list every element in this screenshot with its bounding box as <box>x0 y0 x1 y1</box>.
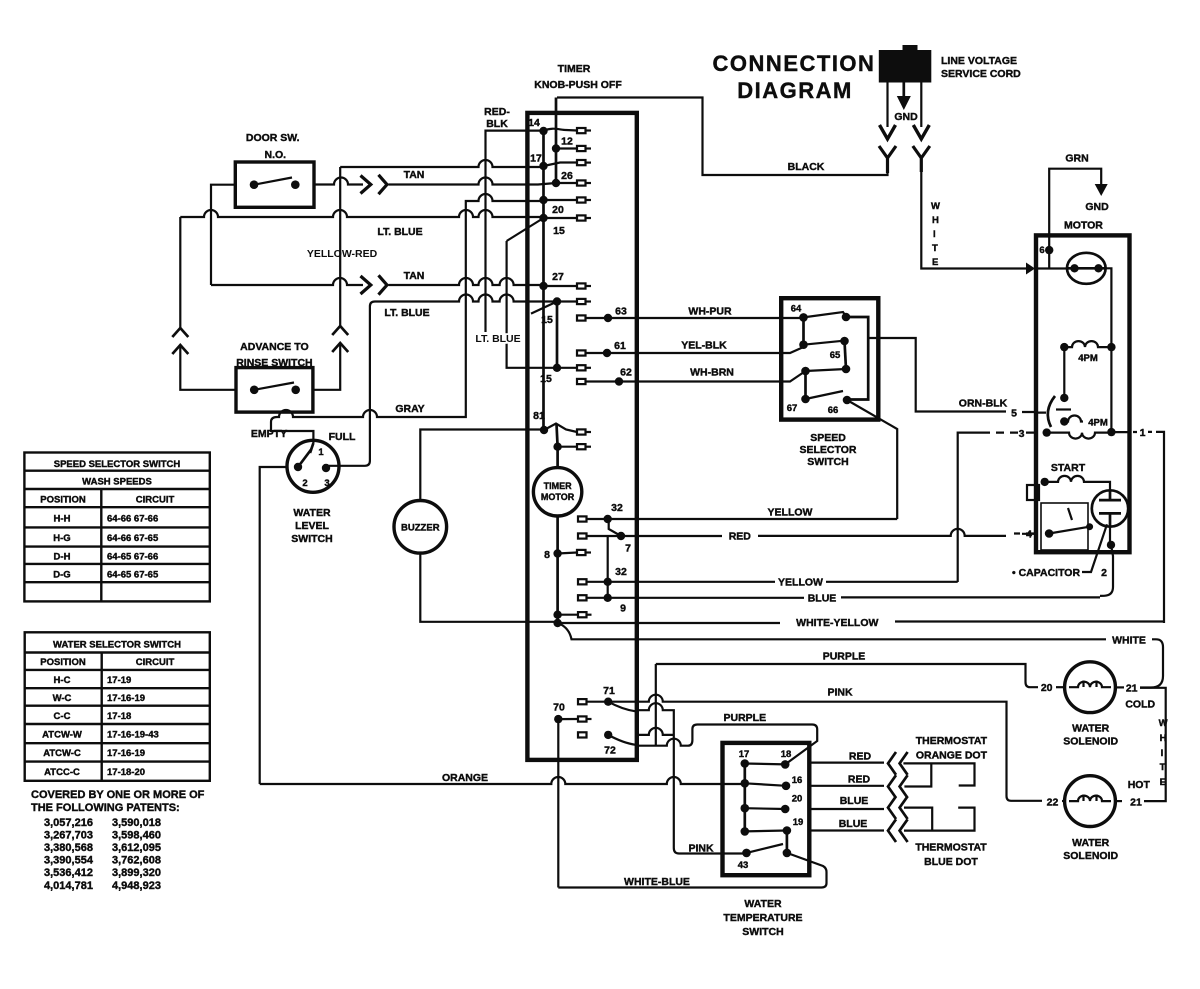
svg-text:BUZZER: BUZZER <box>401 523 440 534</box>
svg-text:W: W <box>931 201 940 212</box>
gnd arrow <box>897 96 911 110</box>
chevrons BLUE t1 <box>888 796 908 819</box>
svg-text:LT. BLUE: LT. BLUE <box>377 226 422 238</box>
motor governor rect <box>1041 503 1088 550</box>
blade 67 <box>806 391 844 399</box>
svg-text:2: 2 <box>302 478 307 489</box>
blade 72 <box>608 735 635 745</box>
wire PINK to hot solenoid <box>587 695 1043 801</box>
svg-text:PINK: PINK <box>827 687 853 699</box>
wire speed sel out to motor pin5 <box>868 338 1036 412</box>
svg-text:BLUE: BLUE <box>840 795 869 807</box>
node 32 lower <box>604 578 612 586</box>
svg-text:4,948,923: 4,948,923 <box>112 880 161 892</box>
speed sel node 64b <box>842 313 851 322</box>
svg-text:COVERED BY ONE OR MORE OF: COVERED BY ONE OR MORE OF <box>31 789 205 801</box>
svg-text:32: 32 <box>615 566 627 578</box>
svg-text:BLK: BLK <box>486 118 508 130</box>
svg-text:THERMOSTAT: THERMOSTAT <box>916 735 988 747</box>
chevron V3 b <box>332 343 348 352</box>
wire WHITE link between solenoids <box>1140 688 1166 801</box>
wire blade72 out to PURPLE lower <box>637 725 817 765</box>
wire plug right pin <box>920 83 922 128</box>
wt blade to 20 <box>745 807 785 810</box>
timer contact 15 lower <box>553 364 561 372</box>
timer internal bus mid 15 <box>556 302 559 368</box>
svg-text:I: I <box>933 229 936 240</box>
node 7 <box>617 532 625 540</box>
svg-text:YEL-BLK: YEL-BLK <box>681 340 727 352</box>
timer contact 614 <box>553 611 561 619</box>
wire buzzer top to contact 81 <box>420 430 543 501</box>
wire row 167 to contact 17 <box>340 160 543 167</box>
wire TAN lower cont <box>389 278 544 285</box>
svg-text:SOLENOID: SOLENOID <box>1063 850 1118 862</box>
terminal 15 lower <box>577 365 586 370</box>
svg-text:H: H <box>1160 733 1167 744</box>
svg-text:5: 5 <box>1011 408 1017 420</box>
svg-text:3,536,412: 3,536,412 <box>44 867 93 879</box>
speed sel inner bus <box>846 317 868 400</box>
svg-text:27: 27 <box>552 271 564 283</box>
svg-text:3,057,216: 3,057,216 <box>44 817 93 829</box>
terminal 32 lower <box>578 579 587 584</box>
wire water level pin2 left riser <box>260 467 287 784</box>
wire RED t2 <box>809 763 931 786</box>
svg-text:WASH SPEEDS: WASH SPEEDS <box>82 477 152 488</box>
timer contact 26 <box>552 179 560 187</box>
svg-text:20: 20 <box>792 794 803 805</box>
wire BLUE <box>587 596 1101 599</box>
terminal 32 upper <box>578 516 587 521</box>
svg-text:17: 17 <box>739 749 750 760</box>
wire WHITE from timer <box>558 623 1163 688</box>
table water selector switch <box>25 632 210 781</box>
svg-text:17-16-19: 17-16-19 <box>107 693 145 704</box>
svg-text:64-65 67-66: 64-65 67-66 <box>107 552 158 563</box>
svg-text:ORANGE DOT: ORANGE DOT <box>916 750 988 762</box>
start switch circle <box>1092 490 1128 526</box>
svg-text:THE FOLLOWING PATENTS:: THE FOLLOWING PATENTS: <box>31 802 180 814</box>
svg-text:2: 2 <box>1101 567 1107 579</box>
water level switch circle <box>287 440 339 492</box>
svg-text:71: 71 <box>603 685 615 697</box>
svg-text:H-C: H-C <box>54 675 71 686</box>
svg-text:SPEED SELECTOR SWITCH: SPEED SELECTOR SWITCH <box>54 459 181 470</box>
svg-text:KNOB-PUSH OFF: KNOB-PUSH OFF <box>534 79 622 91</box>
svg-text:64-66 67-65: 64-66 67-65 <box>107 533 159 544</box>
terminal 9 <box>578 595 587 600</box>
svg-text:MOTOR: MOTOR <box>1064 220 1103 232</box>
svg-text:62: 62 <box>620 367 632 379</box>
svg-text:3: 3 <box>1019 428 1025 440</box>
terminal 63 <box>577 315 586 320</box>
svg-text:RED: RED <box>729 531 752 543</box>
motor centrifugal contact lower <box>1060 417 1068 425</box>
wire YELLOW lower <box>587 581 958 583</box>
svg-text:SWITCH: SWITCH <box>807 456 848 468</box>
water level wiper <box>298 449 312 467</box>
svg-text:SELECTOR: SELECTOR <box>800 444 857 456</box>
svg-text:WHITE-BLUE: WHITE-BLUE <box>624 876 690 888</box>
timer contact 12 <box>552 144 560 152</box>
svg-text:DOOR SW.: DOOR SW. <box>246 132 300 144</box>
svg-text:I: I <box>1161 748 1164 759</box>
wire WHITE-YELLOW <box>558 619 1164 623</box>
svg-text:12: 12 <box>561 136 573 148</box>
chevron V1 b <box>172 345 188 354</box>
svg-text:C-C: C-C <box>54 711 71 722</box>
svg-text:GND: GND <box>894 111 918 123</box>
svg-text:WATER: WATER <box>744 898 782 910</box>
speed sel contact 65 <box>842 365 851 374</box>
node 71 <box>604 698 612 706</box>
arrow right pin <box>913 125 929 139</box>
timer contact 15 upper <box>539 214 547 222</box>
svg-text:20: 20 <box>552 204 564 216</box>
svg-text:17-18: 17-18 <box>107 711 131 722</box>
wt node mid <box>741 804 750 813</box>
svg-text:17-19: 17-19 <box>107 675 131 686</box>
svg-text:8: 8 <box>544 549 550 561</box>
svg-text:1: 1 <box>1140 427 1146 439</box>
door switch contacts <box>250 180 259 189</box>
svg-text:GND: GND <box>1085 201 1109 213</box>
wt link 19 down <box>786 831 789 853</box>
rinse switch blade <box>254 383 294 390</box>
svg-text:TEMPERATURE: TEMPERATURE <box>723 912 802 924</box>
timer internal bus to motor <box>557 424 558 468</box>
rinse switch contacts <box>250 386 259 395</box>
internal link 7-9 <box>607 536 609 598</box>
wt contact 19 <box>783 826 792 835</box>
svg-text:E: E <box>1160 777 1166 788</box>
V1 wire left <box>180 217 236 390</box>
wire LT.BLUE mid to water level pin3 <box>326 295 553 466</box>
svg-text:70: 70 <box>553 702 565 714</box>
svg-text:POSITION: POSITION <box>40 495 86 506</box>
wt bus <box>743 764 746 832</box>
svg-text:15: 15 <box>540 373 552 385</box>
motor 4PM upper winding <box>1060 343 1068 351</box>
terminal 27 <box>577 283 586 288</box>
wt contact 20 <box>781 805 790 814</box>
svg-text:LINE VOLTAGE: LINE VOLTAGE <box>941 55 1017 67</box>
svg-text:4,014,781: 4,014,781 <box>44 880 93 892</box>
svg-text:COLD: COLD <box>1125 699 1155 711</box>
rinse switch box <box>236 368 313 413</box>
speed sel contact 64 <box>799 313 808 322</box>
terminal 14 <box>577 128 586 133</box>
svg-text:3,612,095: 3,612,095 <box>112 842 161 854</box>
wire plug gnd pin <box>902 83 905 98</box>
speed sel bus 67 <box>804 371 807 399</box>
svg-text:BLUE DOT: BLUE DOT <box>924 856 978 868</box>
svg-text:LT. BLUE: LT. BLUE <box>475 333 520 345</box>
motor contact 4 <box>1045 529 1054 538</box>
svg-text:D-H: D-H <box>54 552 71 563</box>
terminal 20 <box>577 197 586 202</box>
door switch blade <box>254 178 292 185</box>
wt node low <box>741 827 750 836</box>
speed sel contact 67 <box>801 395 810 404</box>
svg-text:PURPLE: PURPLE <box>823 651 866 663</box>
svg-text:TAN: TAN <box>404 169 425 181</box>
svg-text:63: 63 <box>615 306 627 318</box>
svg-text:THERMOSTAT: THERMOSTAT <box>915 842 987 854</box>
svg-text:72: 72 <box>604 745 616 757</box>
wire GRAY row 201 riser <box>271 194 544 443</box>
svg-text:21: 21 <box>1126 683 1138 695</box>
wire TAN lower <box>211 278 363 285</box>
timer contact 27 <box>539 282 547 290</box>
svg-text:EMPTY: EMPTY <box>251 428 287 440</box>
terminal 446 <box>577 444 586 449</box>
wire RED-BLK riser <box>486 131 544 332</box>
svg-text:SWITCH: SWITCH <box>291 533 332 545</box>
svg-text:WHITE: WHITE <box>1112 634 1146 646</box>
svg-text:4PM: 4PM <box>1088 418 1108 429</box>
svg-text:17: 17 <box>530 153 542 165</box>
svg-text:WH-PUR: WH-PUR <box>688 306 732 318</box>
wire WH-BRN <box>586 371 806 382</box>
terminal 15 mid <box>577 299 586 304</box>
connector Y right <box>913 146 930 172</box>
wt blade 43 <box>747 844 784 853</box>
wire WHITE-BLUE <box>558 853 826 888</box>
wire pin 1 to white-yellow riser <box>1111 432 1164 619</box>
svg-text:SERVICE CORD: SERVICE CORD <box>941 68 1021 80</box>
motor grn link <box>1048 250 1050 268</box>
svg-text:21: 21 <box>1130 796 1142 808</box>
svg-text:9: 9 <box>620 603 626 615</box>
svg-text:WATER: WATER <box>1072 837 1110 849</box>
svg-text:64-65 67-65: 64-65 67-65 <box>107 570 159 581</box>
water level contact 3 <box>322 464 330 472</box>
motor 4PM lower winding <box>1064 416 1083 422</box>
timer internal bus upper (black feed) <box>555 98 558 184</box>
timer motor circle <box>533 468 581 516</box>
wire buzzer bottom <box>420 553 557 623</box>
wire BLUE t2 <box>809 808 974 831</box>
wt contact bottom right <box>783 849 792 858</box>
blade 32-7 <box>609 519 621 536</box>
svg-text:22: 22 <box>1047 797 1059 809</box>
speed sel bus 64-65 <box>802 317 805 344</box>
water solenoid COLD <box>1065 662 1116 713</box>
speed selector switch box <box>781 298 878 419</box>
terminal 7 <box>578 533 587 538</box>
motor node grn <box>1045 246 1053 254</box>
node 9 <box>604 594 612 602</box>
wire WHITE vertical to motor <box>921 172 1026 269</box>
svg-text:20: 20 <box>1041 682 1053 694</box>
motor link 4PM to 5 <box>1063 347 1065 398</box>
connector Y left <box>879 146 896 173</box>
terminal 71 <box>578 699 587 704</box>
svg-text:ATCW-C: ATCW-C <box>43 748 81 759</box>
water temperature switch box <box>723 743 810 875</box>
svg-text:WATER: WATER <box>1072 723 1110 735</box>
V3 wire mid <box>313 167 340 390</box>
svg-text:CONNECTION: CONNECTION <box>713 51 876 76</box>
door switch box <box>235 162 314 207</box>
svg-text:18: 18 <box>781 749 792 760</box>
chevrons BLUE t2 <box>888 819 908 842</box>
svg-text:GRN: GRN <box>1065 153 1088 165</box>
svg-text:17-16-19-43: 17-16-19-43 <box>107 730 159 741</box>
water level contact 2 <box>294 463 302 471</box>
line voltage service cord plug <box>879 50 932 83</box>
timer internal bus left <box>542 131 545 430</box>
svg-text:3,380,568: 3,380,568 <box>44 842 93 854</box>
wire plug left pin <box>886 83 888 128</box>
wire purple drop V2b <box>655 664 657 746</box>
wire riser 15 lower <box>507 241 553 368</box>
svg-text:TIMER: TIMER <box>544 481 572 491</box>
wire hot 21 <box>1115 800 1122 802</box>
blade 15 upper diagonal <box>507 218 544 241</box>
svg-text:14: 14 <box>528 117 540 129</box>
svg-text:LEVEL: LEVEL <box>295 520 329 532</box>
svg-text:LT. BLUE: LT. BLUE <box>384 307 429 319</box>
timer contact 81 <box>540 426 548 434</box>
terminal 12 <box>577 146 586 151</box>
svg-text:SOLENOID: SOLENOID <box>1063 736 1118 748</box>
wire BLUE t1 <box>809 808 932 831</box>
chevrons RED t2 <box>888 775 908 798</box>
svg-text:PINK: PINK <box>688 843 714 855</box>
svg-text:ORN-BLK: ORN-BLK <box>959 398 1008 410</box>
node white-yellow junction <box>553 619 561 627</box>
svg-text:66: 66 <box>828 405 839 416</box>
terminal 8 <box>577 550 586 555</box>
timer internal bus lower <box>556 516 559 623</box>
svg-text:T: T <box>1160 762 1166 773</box>
svg-text:START: START <box>1051 462 1086 474</box>
motor box <box>1036 235 1130 552</box>
svg-text:3,762,608: 3,762,608 <box>112 855 161 867</box>
svg-text:WH-BRN: WH-BRN <box>690 367 734 379</box>
motor centrifugal contact upper <box>1060 394 1068 402</box>
svg-text:H: H <box>932 215 939 226</box>
timer contact 14 <box>539 127 547 135</box>
wire YELLOW upper <box>587 518 898 520</box>
svg-text:3,598,460: 3,598,460 <box>112 830 161 842</box>
svg-text:6: 6 <box>1039 245 1044 256</box>
svg-text:17-18-20: 17-18-20 <box>107 767 145 778</box>
connector chevron TAN upper <box>379 175 388 194</box>
wire TAN upper <box>314 178 363 185</box>
svg-text:3,267,703: 3,267,703 <box>44 830 93 842</box>
svg-text:26: 26 <box>561 170 573 182</box>
connector chevron TAN lower <box>379 275 388 294</box>
speed sel contact 66 <box>843 396 852 405</box>
wire pin 3 <box>958 413 1046 582</box>
speed sel node 65 top <box>840 337 849 346</box>
buzzer circle <box>394 501 447 554</box>
wt blade to 19 <box>745 829 787 832</box>
wire LT.BLUE upper <box>180 210 543 217</box>
chevrons RED t1 <box>888 752 908 775</box>
table speed selector switch <box>24 453 209 602</box>
svg-text:POSITION: POSITION <box>40 657 86 668</box>
terminal 62 <box>577 379 586 384</box>
svg-text:RED-: RED- <box>484 106 510 118</box>
node 62 <box>615 377 623 385</box>
svg-text:19: 19 <box>793 817 804 828</box>
svg-text:W-C: W-C <box>53 693 72 704</box>
svg-text:YELLOW-RED: YELLOW-RED <box>307 248 378 260</box>
arrow into motor <box>1026 263 1035 275</box>
svg-text:HOT: HOT <box>1128 779 1151 791</box>
svg-text:1: 1 <box>318 447 324 458</box>
wire ORANGE <box>260 777 745 784</box>
svg-text:BLACK: BLACK <box>788 161 825 173</box>
water solenoid HOT <box>1065 776 1116 827</box>
svg-text:17-16-19: 17-16-19 <box>107 748 145 759</box>
chevron V1 a <box>172 328 188 337</box>
speed sel contact 67a <box>801 367 810 376</box>
svg-text:FULL: FULL <box>329 431 356 443</box>
svg-text:WATER: WATER <box>293 507 331 519</box>
wire 70 riser <box>557 719 559 887</box>
wire pin 4 <box>1014 532 1036 534</box>
svg-text:43: 43 <box>738 860 749 871</box>
svg-text:W: W <box>1159 718 1168 729</box>
wire PURPLE upper <box>656 664 1038 687</box>
svg-text:MOTOR: MOTOR <box>541 492 575 502</box>
wt blade 17-18 <box>745 762 785 765</box>
terminal 81 <box>577 429 586 434</box>
svg-text:CIRCUIT: CIRCUIT <box>136 495 175 506</box>
svg-text:WATER SELECTOR SWITCH: WATER SELECTOR SWITCH <box>53 640 181 651</box>
arrow TAN upper <box>361 176 371 194</box>
timer contact 20 <box>539 196 547 204</box>
svg-text:7: 7 <box>625 543 631 555</box>
svg-text:YELLOW: YELLOW <box>778 577 823 589</box>
arrow left pin <box>880 125 896 139</box>
svg-text:67: 67 <box>787 403 798 414</box>
svg-text:PURPLE: PURPLE <box>724 712 767 724</box>
blade 65a <box>804 341 845 345</box>
svg-text:ORANGE: ORANGE <box>442 772 488 784</box>
svg-text:3,899,320: 3,899,320 <box>112 867 161 879</box>
timer contact 15 mid <box>553 297 561 305</box>
svg-text:BLUE: BLUE <box>808 593 837 605</box>
svg-text:ADVANCE TO: ADVANCE TO <box>240 341 308 353</box>
wt node orange <box>741 779 750 788</box>
timer contact 17 <box>539 162 547 170</box>
centrifugal actuator arc <box>1048 396 1055 427</box>
svg-text:H-H: H-H <box>54 514 71 525</box>
svg-text:ATCW-W: ATCW-W <box>42 730 82 741</box>
node 63 <box>604 314 612 322</box>
wire door switch left to V2 <box>211 185 235 285</box>
gnd arrow motor <box>1095 184 1108 196</box>
svg-text:E: E <box>932 257 938 268</box>
blade 64 <box>804 312 847 317</box>
wt contact 17 <box>741 759 750 768</box>
wire GRN <box>1049 169 1101 250</box>
svg-text:TIMER: TIMER <box>558 63 591 75</box>
svg-text:TAN: TAN <box>404 270 425 282</box>
wire YEL-BLK <box>586 347 804 353</box>
svg-text:ATCC-C: ATCC-C <box>44 767 80 778</box>
terminal 72 <box>578 732 587 737</box>
blade 15 mid diagonal <box>531 302 557 314</box>
wire WH-PUR <box>586 317 804 319</box>
